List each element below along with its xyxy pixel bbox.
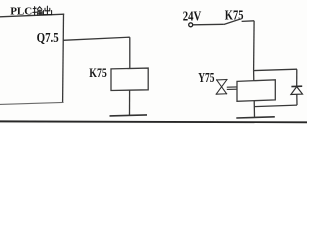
PLC output box (left, open at image edge) bbox=[0, 14, 64, 104]
wire junction into coil top bbox=[253, 71, 255, 81]
svg-text:K75: K75 bbox=[225, 7, 244, 23]
relay coil K75 bbox=[111, 68, 148, 90]
svg-text:24V: 24V bbox=[183, 8, 202, 24]
wire down to junction bbox=[253, 21, 256, 71]
wire box right edge bbox=[62, 14, 65, 102]
contact K75 arm bbox=[224, 19, 241, 25]
wire coil to ground bbox=[129, 90, 131, 115]
ground bar (Y75) bbox=[236, 117, 274, 118]
valve link lines bbox=[227, 86, 237, 88]
glyph 输 bbox=[33, 7, 42, 15]
diode cathode bar bbox=[291, 85, 302, 87]
bottom rule band bbox=[0, 120, 307, 123]
wire from Q7.5 to K75 coil bbox=[63, 37, 130, 40]
wire junction to diode branch bbox=[254, 69, 297, 70]
solenoid coil Y75 bbox=[237, 80, 275, 102]
wire coil bottom down bbox=[253, 101, 255, 117]
wire box bottom bbox=[0, 102, 63, 104]
wire diode top lead bbox=[296, 69, 298, 86]
svg-text:PLC: PLC bbox=[10, 5, 32, 17]
svg-text:Q7.5: Q7.5 bbox=[37, 30, 59, 46]
valve symbol Y75 (bowtie) bbox=[216, 80, 227, 95]
glyph 出 bbox=[43, 6, 51, 15]
wire 24V to contact bbox=[193, 23, 224, 26]
svg-text:K75: K75 bbox=[89, 67, 107, 80]
ground bar (K75) bbox=[110, 115, 148, 116]
wire down to coil bbox=[129, 37, 131, 68]
svg-text:Y75: Y75 bbox=[198, 70, 214, 85]
wire diode bottom lead bbox=[296, 94, 298, 105]
wire contact to corner bbox=[242, 20, 255, 23]
terminal 24V bbox=[189, 23, 193, 27]
wire box top bbox=[0, 14, 64, 17]
diode triangle bbox=[291, 87, 303, 95]
wire bottom junction to diode bbox=[254, 105, 297, 107]
